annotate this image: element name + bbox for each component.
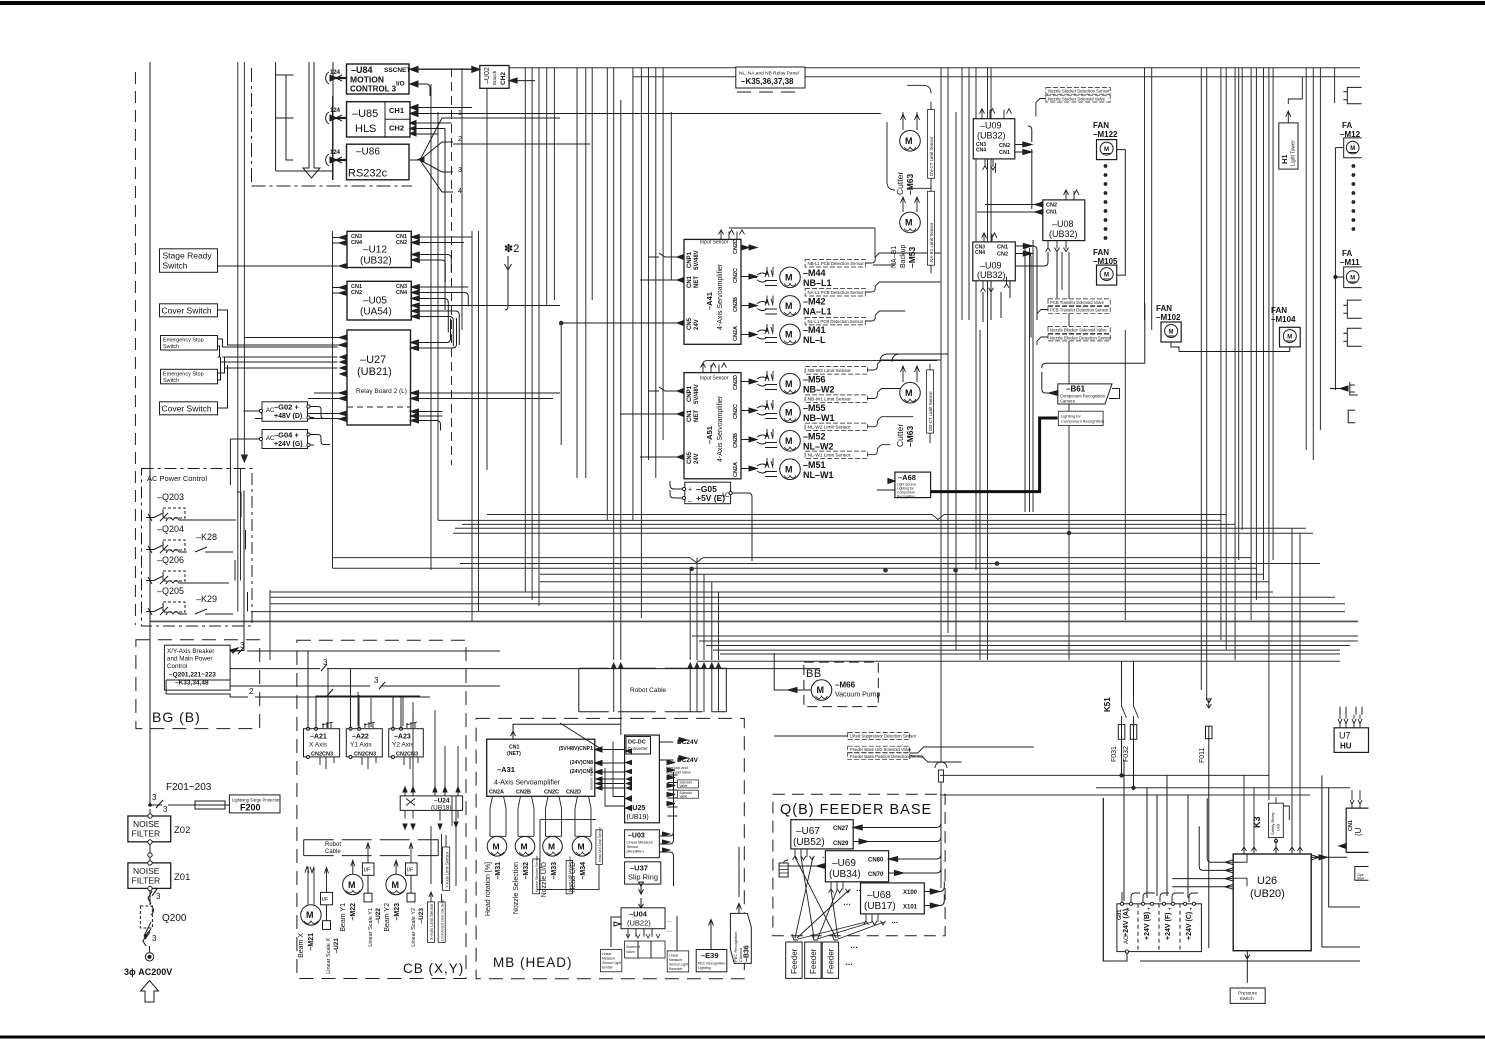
- motor M21 beam x: [298, 867, 321, 958]
- svg-text:NA–L1: NA–L1: [803, 307, 832, 317]
- svg-text:Linear: Linear: [669, 954, 679, 958]
- svg-text:PEC Recognition: PEC Recognition: [698, 962, 725, 966]
- svg-text:+24V (A): +24V (A): [1123, 909, 1130, 937]
- svg-text:X-Axis Limit Sensor: X-Axis Limit Sensor: [429, 903, 434, 940]
- svg-text:Linear Measure: Linear Measure: [627, 841, 653, 845]
- svg-text:Input Sensor: Input Sensor: [700, 376, 729, 382]
- svg-text:–M23: –M23: [394, 903, 401, 921]
- feeder box 1: [786, 942, 802, 978]
- svg-text:MB (HEAD): MB (HEAD): [493, 955, 573, 970]
- svg-text:FAN: FAN: [1271, 306, 1287, 315]
- svg-text:–U86: –U86: [356, 147, 380, 158]
- svg-text:NB-W1 Limit Sensor: NB-W1 Limit Sensor: [808, 397, 852, 403]
- surge protector F200: [229, 795, 280, 813]
- wire thick lighting feed: [931, 418, 1058, 492]
- svg-text:–U69: –U69: [832, 858, 856, 869]
- limit sensor strip DV-CT: [907, 85, 935, 188]
- svg-text:(UA54): (UA54): [360, 307, 392, 318]
- svg-text:CN2CN3: CN2CN3: [311, 752, 333, 758]
- svg-text:Sensor Light: Sensor Light: [669, 963, 688, 967]
- io unit U69: [788, 846, 941, 893]
- svg-text:X Axis: X Axis: [309, 742, 328, 749]
- svg-text:5V/48V: 5V/48V: [694, 384, 700, 404]
- svg-text:M: M: [785, 408, 793, 418]
- svg-text:Beam Y1: Beam Y1: [340, 903, 347, 932]
- svg-text:CN5: CN5: [687, 451, 693, 464]
- vacuum pump M66: [774, 653, 880, 700]
- svg-text:–A22: –A22: [352, 734, 369, 741]
- svg-text:(NET): (NET): [507, 751, 521, 757]
- svg-text:–U05: –U05: [363, 296, 387, 307]
- svg-text:Backup: Backup: [900, 245, 907, 268]
- lighting E39: [696, 920, 727, 972]
- svg-text:Nozzle Stocker Solenoid Valve: Nozzle Stocker Solenoid Valve: [1048, 96, 1106, 101]
- sensor tag feeder base ud: [848, 746, 912, 752]
- svg-text:M: M: [1287, 335, 1292, 341]
- svg-text:CN2: CN2: [997, 252, 1008, 258]
- svg-text:CN2B: CN2B: [516, 790, 531, 796]
- svg-text:–M22: –M22: [350, 903, 357, 921]
- svg-text:U26: U26: [1257, 875, 1277, 887]
- svg-text:F201~203: F201~203: [166, 782, 212, 793]
- rs232c U86: [347, 144, 410, 180]
- svg-text:FAN: FAN: [1093, 121, 1109, 130]
- svg-text:+: +: [1189, 907, 1193, 913]
- main AC vertical wire: [149, 62, 151, 905]
- svg-text:DV-CT Limit Sensor: DV-CT Limit Sensor: [929, 136, 934, 176]
- svg-text:–M33: –M33: [551, 862, 558, 880]
- sensor tag nozzle blocker sol: [1048, 327, 1110, 334]
- sensor tag nozzle stocker det: [1046, 87, 1110, 94]
- svg-text:M: M: [905, 136, 913, 146]
- svg-text:U7: U7: [1339, 731, 1351, 741]
- svg-text:H1: H1: [1280, 154, 1289, 164]
- svg-text:–M63: –M63: [905, 425, 915, 447]
- solenoid valve tag a: [678, 780, 699, 788]
- svg-text:–U84: –U84: [351, 65, 373, 75]
- svg-text:CN5: CN5: [687, 317, 693, 330]
- svg-text:CN80: CN80: [868, 858, 884, 864]
- scale interface U21: [321, 867, 341, 973]
- svg-text:F200: F200: [240, 803, 261, 813]
- svg-text:Q200: Q200: [162, 913, 187, 924]
- fan M104: [1179, 306, 1300, 352]
- wire vertical x487: [486, 68, 488, 470]
- wire top bus A: [410, 68, 1360, 69]
- svg-text:–M11: –M11: [1340, 258, 1360, 267]
- svg-text:Valve: Valve: [680, 784, 688, 788]
- limit sensor strip DB-CT: [880, 354, 948, 443]
- fuse F011: [1199, 699, 1212, 763]
- svg-text:124: 124: [330, 70, 341, 76]
- fan M12x right: [1335, 121, 1361, 158]
- wire feeder arrows: [792, 934, 838, 940]
- svg-text:–U12: –U12: [363, 245, 387, 256]
- svg-text:Measure: Measure: [602, 957, 615, 961]
- svg-text:DC24V: DC24V: [677, 757, 699, 764]
- wire left stair to 124 marks: [276, 62, 294, 171]
- svg-text:(U: (U: [1354, 827, 1363, 836]
- svg-text:Branch: Branch: [492, 70, 497, 85]
- fuse group F201-203: [149, 782, 240, 814]
- x axis limit sensor: [428, 826, 435, 942]
- wire feeder cross links: [795, 857, 884, 939]
- svg-text:Camera: Camera: [738, 947, 743, 962]
- io unit U09 lower: [973, 233, 1037, 338]
- svg-text:M: M: [493, 842, 500, 852]
- svg-text:RS232c: RS232c: [348, 168, 388, 180]
- branch unit U02: [472, 66, 535, 89]
- svg-text:–M42: –M42: [803, 297, 826, 307]
- svg-text:3: 3: [323, 658, 328, 667]
- svg-text:Switch: Switch: [163, 261, 188, 271]
- motor M41: [749, 324, 826, 345]
- cutter motor M63 lower: [895, 366, 920, 447]
- wire verticals into MB head: [614, 668, 719, 735]
- svg-text:CN2: CN2: [396, 240, 407, 246]
- svg-text:AC Power Control: AC Power Control: [147, 474, 207, 483]
- svg-text:K3: K3: [1252, 816, 1262, 828]
- svg-text:X101: X101: [903, 905, 918, 911]
- page bottom border: [0, 1036, 1485, 1039]
- svg-text:(UB18): (UB18): [431, 805, 452, 812]
- svg-text:–U09: –U09: [980, 121, 1002, 131]
- svg-text:(UB21): (UB21): [357, 366, 392, 378]
- svg-text:Measure: Measure: [669, 958, 682, 962]
- svg-text:I/F: I/F: [364, 868, 371, 874]
- svg-text:Cable: Cable: [325, 849, 341, 855]
- left frame dashed: [134, 72, 136, 625]
- io unit U04: [611, 899, 672, 947]
- svg-text:NL, NA,and NB Relay Panel: NL, NA,and NB Relay Panel: [739, 71, 799, 77]
- breaker Q203: [146, 492, 236, 521]
- annotation star2: [504, 243, 519, 310]
- svg-text:M: M: [521, 842, 528, 852]
- sensor tag NA-L1: [805, 282, 940, 296]
- xy axis breaker box: [164, 491, 244, 691]
- svg-text:CN29: CN29: [833, 841, 849, 847]
- svg-text:CN2: CN2: [1046, 203, 1057, 209]
- svg-text:(UB32): (UB32): [360, 256, 392, 267]
- cover switch 2: [160, 345, 338, 415]
- svg-text:NL-W1 Limit Sensor: NL-W1 Limit Sensor: [808, 453, 851, 459]
- breaker Q205 with K29: [146, 586, 233, 615]
- y axis limit sensor: [443, 796, 457, 890]
- svg-text:FILTER: FILTER: [132, 876, 161, 886]
- svg-text:3: 3: [152, 793, 157, 802]
- svg-text:CN2CN3: CN2CN3: [354, 752, 376, 758]
- enclosure BG(B): [136, 640, 260, 729]
- svg-text:–U27: –U27: [360, 354, 386, 366]
- svg-text:+24V (F): +24V (F): [1165, 913, 1172, 940]
- svg-text:CNP1: CNP1: [687, 385, 693, 402]
- svg-text:(24V)CN8: (24V)CN8: [570, 760, 593, 766]
- safety relay K3: [1252, 797, 1289, 843]
- svg-text:CN2D: CN2D: [733, 375, 739, 390]
- sensor tag NB-W2: [805, 360, 941, 374]
- sensor tag NB-W1: [805, 389, 913, 403]
- wire vertical x438: [437, 112, 439, 520]
- breaker Q204 with K28: [146, 524, 233, 553]
- svg-text:CN2: CN2: [999, 143, 1010, 149]
- svg-text:3: 3: [163, 805, 168, 814]
- enclosure QB feeder base: [773, 794, 945, 936]
- emergency stop switch 2: [161, 357, 338, 384]
- svg-text:CN4: CN4: [396, 290, 408, 296]
- svg-text:NET: NET: [694, 410, 700, 422]
- svg-text:Linear Scale Y2: Linear Scale Y2: [411, 908, 417, 947]
- svg-text:Cover Switch: Cover Switch: [162, 404, 212, 414]
- svg-text:M: M: [1350, 146, 1355, 152]
- svg-text:Head rotation [%]: Head rotation [%]: [485, 862, 492, 916]
- io unit U12: [332, 231, 472, 282]
- svg-text:Nozzle Selection: Nozzle Selection: [513, 862, 520, 914]
- svg-text:–A21: –A21: [310, 734, 327, 741]
- svg-text:M: M: [785, 436, 793, 446]
- light receiver box: [667, 916, 689, 972]
- svg-text:NB–W2: NB–W2: [803, 385, 835, 395]
- svg-text:–U21: –U21: [333, 938, 340, 954]
- svg-text:–B36: –B36: [744, 945, 751, 962]
- svg-text:–K35,36,37,38: –K35,36,37,38: [741, 77, 794, 86]
- svg-text:CN1: CN1: [687, 275, 693, 288]
- wire vertical dashed x451: [451, 68, 453, 465]
- svg-text:CN1: CN1: [1046, 210, 1057, 216]
- relay panel K35-38: [736, 67, 805, 92]
- svg-text:I/F: I/F: [322, 897, 329, 903]
- svg-text:M: M: [1104, 273, 1109, 279]
- wire vertical x431: [430, 84, 432, 570]
- motor M52: [749, 429, 834, 452]
- wire U85 CH1 out: [410, 108, 881, 114]
- svg-text:CONTROL 3: CONTROL 3: [350, 85, 397, 94]
- svg-text:NL–L: NL–L: [803, 335, 826, 345]
- svg-text:(UB17): (UB17): [864, 901, 896, 912]
- servo A22: [346, 692, 382, 769]
- svg-text:3: 3: [374, 676, 379, 685]
- servoamp A41: [561, 228, 875, 344]
- svg-text:24V: 24V: [694, 319, 700, 330]
- svg-text:DC-DC: DC-DC: [628, 740, 646, 746]
- cutter motor M63 top: [895, 112, 920, 195]
- wire vertical right-center cluster: [941, 68, 991, 888]
- svg-text:AC: AC: [721, 493, 730, 499]
- svg-text:Switch: Switch: [163, 344, 179, 350]
- relay board U27: [227, 318, 560, 431]
- svg-text:Safety Relay: Safety Relay: [1270, 812, 1275, 835]
- svg-text:–A41: –A41: [705, 292, 714, 310]
- light tower H1: [1279, 77, 1303, 169]
- motor M23 beam y2: [384, 860, 406, 931]
- wire arrows robot cable entries: [612, 663, 721, 668]
- svg-text:M: M: [306, 910, 314, 920]
- fan M105: [1093, 248, 1118, 285]
- svg-text:and Main Power: and Main Power: [167, 656, 213, 663]
- svg-text:CN2A: CN2A: [489, 790, 504, 796]
- interface unit U24: [400, 710, 462, 829]
- svg-text:Sensor: Sensor: [627, 845, 640, 849]
- wire cb feeds: [308, 651, 420, 729]
- svg-text:–G02 +: –G02 +: [274, 403, 299, 412]
- motor M56: [749, 371, 835, 395]
- svg-text:–E39: –E39: [701, 951, 719, 960]
- wire chevron H1: [932, 515, 944, 520]
- svg-text:124: 124: [330, 108, 341, 114]
- scale interface U22: [362, 843, 382, 947]
- svg-text:(UB32): (UB32): [977, 270, 1006, 280]
- svg-text:–M31: –M31: [495, 862, 502, 880]
- svg-text:Relay Board 2 (L): Relay Board 2 (L): [356, 388, 407, 395]
- svg-text:DC24V: DC24V: [677, 739, 699, 746]
- svg-text:–A23: –A23: [394, 734, 411, 741]
- svg-text:–U37: –U37: [630, 864, 648, 873]
- robot cable marker cb: [304, 840, 439, 856]
- motor M33 nozzle ud: [541, 796, 562, 897]
- svg-text:…: …: [666, 918, 672, 924]
- breaker Q200: [140, 889, 187, 961]
- svg-text:–U67: –U67: [796, 826, 820, 837]
- fuse F032: [1123, 725, 1137, 762]
- svg-text:Nozzle U/D: Nozzle U/D: [541, 862, 548, 897]
- svg-text:M: M: [578, 842, 585, 852]
- servo A23: [389, 697, 424, 769]
- svg-text:CN2A: CN2A: [733, 462, 739, 477]
- svg-text:M: M: [1169, 330, 1174, 336]
- svg-text:–Q203: –Q203: [157, 492, 184, 502]
- fan M102: [1156, 304, 1181, 352]
- svg-text:SSCNET: SSCNET: [384, 67, 410, 74]
- svg-text:–K33,34,48: –K33,34,48: [175, 680, 209, 687]
- svg-text:_: _: [687, 496, 692, 503]
- svg-text:DB-CT Limit Sensor: DB-CT Limit Sensor: [928, 391, 933, 431]
- cable mark 124 U84: [326, 70, 346, 84]
- svg-text:NL–W2: NL–W2: [803, 442, 834, 452]
- wire top bus B: [633, 76, 1360, 78]
- svg-text:FAN: FAN: [1093, 248, 1109, 257]
- sensor tag nozzle blocker det: [1037, 334, 1112, 345]
- svg-text:Valve: Valve: [680, 794, 688, 798]
- fan M11x right: [1334, 249, 1362, 288]
- svg-text:…: …: [845, 958, 853, 967]
- cutoff connector arrow: [1330, 382, 1358, 423]
- backup motor M53: [891, 197, 920, 268]
- svg-text:CNP1: CNP1: [687, 251, 693, 268]
- servoamp A31: [487, 723, 625, 796]
- svg-text:…: …: [666, 928, 672, 934]
- svg-text:Unit: Unit: [1276, 823, 1281, 831]
- hollow down arrow: [303, 62, 320, 178]
- svg-text:4-Axis Servoamplifier: 4-Axis Servoamplifier: [717, 395, 724, 462]
- wire vertical cluster x525-561: [525, 68, 561, 606]
- enclosure CB(X,Y): [297, 640, 466, 978]
- sensor tag NL-W1: [805, 445, 890, 459]
- svg-text:3: 3: [458, 167, 462, 174]
- io unit U25: [605, 735, 699, 823]
- page top border: [0, 1, 1485, 5]
- svg-text:+48V (D)_: +48V (D)_: [274, 413, 306, 420]
- svg-text:+: +: [1126, 907, 1130, 913]
- wire U84 SSCNET to branch: [410, 68, 476, 70]
- cable mark 124 U85: [326, 108, 346, 124]
- wire vertical x1062 x1069: [1062, 252, 1069, 660]
- svg-text:–U02: –U02: [484, 67, 491, 84]
- motor M55: [749, 400, 835, 423]
- io unit U67: [791, 798, 941, 861]
- svg-text:+: +: [1147, 907, 1151, 913]
- svg-text:Valve: Valve: [626, 950, 635, 954]
- svg-text:3ϕ AC200V: 3ϕ AC200V: [124, 967, 172, 977]
- svg-text:–A31: –A31: [497, 765, 515, 774]
- svg-text:CN2A: CN2A: [733, 326, 739, 341]
- fan M122: [1093, 121, 1125, 275]
- svg-text:+: +: [1168, 907, 1172, 913]
- svg-text:CN1: CN1: [999, 150, 1010, 156]
- ac power control enclosure: [142, 469, 253, 627]
- svg-text:CN1: CN1: [997, 245, 1008, 251]
- svg-text:CN2B: CN2B: [733, 297, 739, 312]
- light emitter box: [600, 950, 621, 972]
- svg-text:+24V (B): +24V (B): [1144, 912, 1151, 940]
- svg-text:Vacuum Pump: Vacuum Pump: [835, 692, 880, 699]
- svg-text:Q(B) FEEDER BASE: Q(B) FEEDER BASE: [780, 802, 932, 818]
- svg-text:Y2 Axis: Y2 Axis: [392, 742, 414, 749]
- wire bus vertical left pair: [238, 62, 245, 612]
- svg-text:FILTER: FILTER: [132, 829, 161, 839]
- sensor amp U03: [625, 772, 674, 886]
- terminal block symbol: [779, 860, 788, 877]
- svg-text:–M56: –M56: [803, 375, 826, 385]
- svg-text:Cutter: Cutter: [895, 172, 905, 195]
- wire junction dots: [559, 321, 1070, 572]
- camera B61: [1042, 303, 1145, 404]
- sensor tag nozzle stocker sol: [1036, 95, 1110, 116]
- svg-text:–U68: –U68: [867, 890, 891, 901]
- svg-text:–M52: –M52: [803, 432, 826, 442]
- scale interface U23: [406, 843, 426, 947]
- enclosure MB(HEAD): [476, 718, 744, 978]
- svg-text:Beam X: Beam X: [298, 933, 305, 958]
- sensor tag NB-L1: [805, 253, 940, 267]
- svg-text:F011: F011: [1199, 747, 1206, 763]
- svg-text:Emitter: Emitter: [602, 966, 614, 970]
- svg-text:–M63: –M63: [905, 173, 915, 195]
- head unit sensor strip: [537, 820, 602, 890]
- svg-text:–M102: –M102: [1156, 313, 1181, 322]
- svg-text:Nozzle Blocker Solenoid Valve: Nozzle Blocker Solenoid Valve: [1050, 328, 1107, 333]
- wire break arc x941: [935, 762, 947, 768]
- wire vertical pair x472: [472, 231, 479, 621]
- svg-text:CN2B: CN2B: [733, 433, 739, 448]
- light source A68: [877, 472, 931, 498]
- svg-text:Nozzle Blocker Detection Senso: Nozzle Blocker Detection Sensor: [1050, 335, 1112, 340]
- wire vertical right bus group: [1201, 68, 1273, 800]
- wire horizontal band H11-H16: [251, 592, 1345, 612]
- svg-text:FA: FA: [1342, 249, 1352, 258]
- io unit U08: [977, 190, 1085, 298]
- svg-text:–Q206: –Q206: [157, 555, 184, 565]
- hub unit U7x: [1334, 707, 1368, 753]
- svg-text:Nozzle Stocker Sensor: Nozzle Stocker Sensor: [535, 855, 539, 892]
- psu G02: [243, 402, 330, 422]
- wire U86 fanout: [410, 110, 590, 195]
- servo A21: [304, 668, 340, 769]
- svg-text:–M41: –M41: [803, 325, 826, 335]
- svg-text:M: M: [1350, 275, 1355, 281]
- svg-text:NB–W1: NB–W1: [803, 413, 835, 423]
- svg-text:–U22: –U22: [375, 908, 382, 924]
- svg-text:CN2C: CN2C: [733, 404, 739, 419]
- motor M42: [749, 296, 832, 317]
